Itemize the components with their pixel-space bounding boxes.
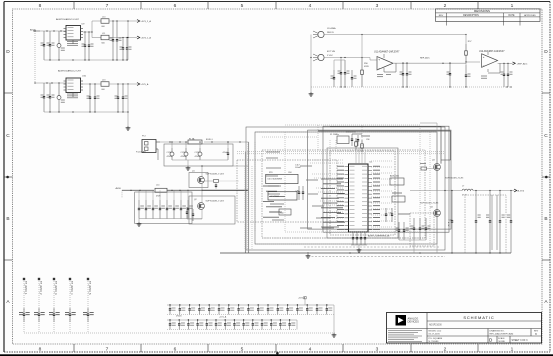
ground entry — [186, 166, 191, 170]
wire stub c74 — [340, 58, 342, 61]
outline box E — [237, 160, 337, 222]
resistor R48 gate — [205, 180, 239, 189]
resistor R57 — [465, 41, 473, 62]
svg-text:7: 7 — [106, 347, 109, 353]
svg-text:REV_A AD2S99/PCB(B): REV_A AD2S99/PCB(B) — [490, 333, 514, 336]
ldo labels rows — [263, 186, 285, 217]
wires to IC left — [308, 160, 344, 218]
svg-text:4: 4 — [309, 3, 312, 9]
ground under IC — [357, 248, 362, 252]
capacitor C79 — [465, 62, 471, 87]
transistor Q1 box — [189, 173, 208, 188]
capacitor C76 — [400, 62, 405, 87]
wire J10 out — [324, 34, 467, 35]
IC U1 ref — [370, 161, 374, 163]
svg-text:REVISIONS: REVISIONS — [474, 9, 490, 13]
capacitor CT1 — [167, 141, 175, 160]
svg-text:C: C — [544, 133, 548, 139]
bus thick vertical 1 — [245, 152, 247, 253]
net label AVDD input — [30, 28, 40, 31]
transistor Q1 part label — [206, 174, 225, 176]
svg-text:TP_AVDD_1: TP_AVDD_1 — [24, 281, 27, 295]
svg-text:C122: C122 — [195, 152, 200, 154]
fuse F1 — [188, 138, 202, 144]
capacitor bank avdd — [138, 190, 193, 218]
outline box C — [262, 150, 425, 238]
capacitor C44 — [507, 191, 512, 254]
ferrite bead L10 — [101, 17, 109, 29]
svg-text:05-17-2005: 05-17-2005 — [429, 334, 441, 336]
capacitor C74 — [331, 60, 343, 87]
right gray rails — [492, 195, 497, 250]
wires from IC right — [371, 161, 392, 227]
svg-text:REV: REV — [534, 330, 539, 332]
regulator U6 LT3045 — [266, 172, 298, 184]
outline box F2 — [330, 151, 395, 235]
wire avdd in — [122, 190, 154, 191]
capacitor C66 — [126, 38, 132, 61]
svg-text:ADM7150ARDZ-3.3-R7: ADM7150ARDZ-3.3-R7 — [56, 18, 80, 21]
svg-text:+1V1_A: +1V1_A — [219, 315, 227, 318]
svg-text:4.7uF: 4.7uF — [447, 222, 449, 228]
wires centre verticals — [248, 125, 430, 250]
net label row1 — [298, 296, 306, 305]
svg-text:DVDD: DVDD — [176, 315, 182, 317]
wire avdd drop — [121, 190, 123, 198]
svg-text:8: 8 — [39, 3, 42, 9]
wire U12 out — [498, 63, 513, 64]
svg-text:5 VDC: 5 VDC — [327, 55, 333, 57]
outline box B — [255, 132, 437, 244]
bus wires centre — [245, 166, 252, 250]
svg-text:2: 2 — [444, 3, 447, 9]
wire q2 drain — [201, 190, 203, 202]
svg-text:SUP70101EL-T1-E3: SUP70101EL-T1-E3 — [420, 202, 439, 204]
svg-text:600: 600 — [102, 89, 105, 91]
net label row2 left — [176, 315, 182, 317]
rail dotted pair 1 — [237, 150, 445, 152]
port +3V3_2_A — [137, 20, 151, 23]
IC U1 label — [368, 234, 390, 237]
connector P1 — [142, 140, 160, 161]
wire input rail reg1 — [40, 30, 66, 31]
capacitor CT4 — [223, 141, 230, 160]
svg-text:U7 LT3045: U7 LT3045 — [270, 196, 279, 198]
capacitor C42 — [486, 191, 491, 254]
op-amp U11 label — [374, 50, 400, 53]
zone centre mark — [6, 176, 547, 355]
wire q2 source — [187, 209, 202, 219]
rail dark top 1 — [330, 127, 441, 164]
capacitor C63 — [110, 21, 115, 60]
capacitor C77 — [406, 62, 412, 87]
svg-text:470R: 470R — [156, 196, 161, 198]
wire r57 to u12 — [465, 61, 480, 62]
capacitor C70 reg2 out — [87, 84, 92, 112]
transistor Q3 part label — [445, 177, 464, 179]
svg-text:6: 6 — [174, 347, 177, 353]
rail dark left — [202, 189, 249, 191]
dense label rows left of IC — [321, 179, 345, 227]
svg-text:3: 3 — [376, 3, 379, 9]
capacitor CT3 — [195, 141, 203, 160]
svg-text:3: 3 — [376, 347, 379, 353]
regulator U9 label — [56, 18, 80, 21]
rail dark bottom — [220, 252, 511, 254]
bus thick vertical 2 — [248, 142, 250, 253]
svg-text:−: − — [483, 63, 485, 67]
capacitor C64 — [116, 21, 122, 60]
wire reg1 gnd rail — [44, 59, 128, 60]
svg-text:C84: C84 — [288, 172, 291, 174]
svg-text:8: 8 — [39, 347, 42, 353]
svg-text:APPROVED: APPROVED — [524, 14, 536, 17]
capacitors under IC — [352, 232, 366, 245]
connector P1 label — [136, 135, 146, 153]
svg-text:1: 1 — [511, 3, 514, 9]
capacitor C49 — [411, 218, 416, 240]
svg-text:4700uF: 4700uF — [181, 156, 188, 158]
op-amp U11 — [377, 54, 393, 77]
svg-text:ADSP-21489BSWZ-4B: ADSP-21489BSWZ-4B — [368, 234, 390, 237]
capacitor Q2 c1 — [186, 207, 188, 219]
svg-text:5: 5 — [241, 347, 244, 353]
ground opamp rail — [0, 0, 1, 1]
wire input rail reg2 — [34, 82, 66, 83]
svg-text:TP_AVDD_4: TP_AVDD_4 — [70, 281, 73, 295]
ground bottom rows — [332, 333, 337, 337]
svg-text:4700uF: 4700uF — [195, 156, 202, 158]
wire reg1 out — [83, 31, 92, 32]
resistor R56 — [361, 58, 370, 88]
capacitor C48 — [403, 222, 409, 240]
svg-text:A_5V0: A_5V0 — [518, 190, 525, 193]
svg-text:X1 25MHz: X1 25MHz — [330, 134, 339, 136]
resistor cluster above U1 — [350, 131, 368, 152]
svg-text:C120: C120 — [167, 152, 172, 154]
crystal X1 — [330, 134, 349, 144]
svg-text:ADM7150ARDZ-2.5-R7: ADM7150ARDZ-2.5-R7 — [58, 70, 82, 73]
svg-text:TP_AVDD_3: TP_AVDD_3 — [54, 281, 57, 295]
capacitor C85 — [296, 186, 301, 200]
svg-text:600: 600 — [102, 26, 105, 28]
svg-text:J10-SMA: J10-SMA — [327, 27, 336, 30]
svg-text:4700uF: 4700uF — [167, 156, 174, 158]
regulator U10 label — [58, 70, 82, 73]
capacitor row 1 — [167, 304, 334, 314]
wire U12 fb — [488, 63, 500, 73]
dashed wire net r2 — [304, 246, 440, 248]
svg-text:U12 ADA4807-1ARJZ-R7: U12 ADA4807-1ARJZ-R7 — [479, 50, 505, 53]
port +REF_5V — [513, 62, 528, 65]
net label REF_ADC — [420, 57, 430, 60]
wire reg1 right rail — [127, 20, 128, 60]
wire opamp gnd rail — [311, 86, 512, 87]
regulator U9 — [64, 24, 86, 46]
connector J10 SMA — [313, 27, 336, 38]
svg-text:U6 LT3045EMSE: U6 LT3045EMSE — [268, 178, 283, 180]
svg-text:TP_AVDD_2: TP_AVDD_2 — [39, 281, 42, 295]
net label PWR — [116, 187, 122, 190]
svg-text:PCI: PCI — [142, 135, 146, 137]
svg-text:SUP70101EL-T1-E3: SUP70101EL-T1-E3 — [206, 200, 225, 202]
zone row labels — [4, 49, 550, 305]
capacitor C86 — [302, 186, 304, 200]
port +2V5_A — [137, 83, 149, 86]
wire avdd rail2 — [167, 190, 249, 191]
right dashed box — [465, 195, 506, 253]
transistor Q3 — [432, 160, 440, 171]
svg-text:SHEET 3 OF 3: SHEET 3 OF 3 — [512, 339, 529, 342]
wire reg2 out — [83, 83, 101, 84]
regulator U10 — [64, 76, 87, 98]
capacitor C67 reg2 in — [41, 83, 46, 112]
svg-text:C: C — [6, 133, 10, 139]
wire bead1 to port — [109, 20, 137, 21]
svg-text:+: + — [483, 55, 485, 59]
wire output rail — [410, 190, 462, 191]
rail dark top 2 — [318, 131, 451, 160]
capacitor C40 — [447, 191, 453, 254]
wire tp gnd rail — [24, 332, 335, 334]
svg-text:SUP70101EL-T1-E3: SUP70101EL-T1-E3 — [445, 177, 464, 179]
svg-text:DATE: DATE — [509, 14, 515, 17]
transistor Q2 box — [189, 196, 235, 224]
svg-text:P.S. SQUARE: P.S. SQUARE — [429, 337, 443, 340]
svg-text:C121: C121 — [181, 152, 186, 154]
svg-text:REV: REV — [439, 15, 444, 17]
svg-text:7: 7 — [106, 3, 109, 9]
svg-text:−: − — [378, 66, 380, 70]
svg-text:EXT VIN: EXT VIN — [327, 51, 336, 53]
wire reg2 down — [127, 84, 128, 126]
capacitor C68 reg2 in — [47, 83, 55, 112]
svg-text:D: D — [544, 49, 548, 55]
transistor Q1 — [192, 171, 204, 184]
outline box D — [323, 126, 449, 232]
capacitor C59 reg1 in — [47, 31, 55, 60]
svg-text:D: D — [6, 49, 10, 55]
power entry cap box — [164, 144, 233, 166]
svg-text:SCHEMATIC: SCHEMATIC — [463, 315, 494, 320]
svg-text:B3JU-1: B3JU-1 — [206, 139, 214, 141]
capacitor row 2 — [167, 319, 297, 329]
svg-text:B: B — [6, 216, 9, 222]
wire q1 source — [201, 183, 202, 191]
svg-text:REF_ADC: REF_ADC — [420, 57, 430, 60]
svg-text:SCALE: SCALE — [498, 337, 505, 340]
svg-text:+2V5_A: +2V5_A — [141, 83, 149, 86]
ferrite bead L14 — [155, 185, 167, 198]
capacitor C81 — [507, 63, 513, 87]
wire U11 fb — [384, 63, 396, 72]
net label C11 100nF — [295, 164, 301, 169]
capacitor C75 — [334, 60, 357, 87]
svg-text:RT6: RT6 — [269, 172, 273, 174]
capacitor C80 — [501, 63, 506, 87]
cluster right of IC — [385, 175, 410, 222]
net SRJU label — [206, 139, 214, 141]
resistor block R50 — [279, 209, 291, 215]
port A_5V — [514, 189, 525, 193]
wire J11 out — [324, 57, 377, 60]
IC U1 main — [337, 164, 380, 232]
svg-text:DRAWING NO.: DRAWING NO. — [490, 329, 505, 332]
ground bottom rail — [306, 252, 311, 258]
wire p1 to fuse — [160, 141, 188, 142]
transistor Q4 — [430, 207, 440, 217]
svg-text:DEVICES: DEVICES — [408, 320, 420, 324]
op-amp U12 label — [479, 50, 505, 53]
svg-text:+3V3_1_A: +3V3_1_A — [141, 37, 152, 40]
wire under ic gnd — [351, 245, 367, 248]
port +3V3_1_A — [137, 36, 151, 39]
wire q1 drain — [201, 165, 248, 176]
ground cap bank — [137, 222, 142, 226]
svg-text:ADM7160: ADM7160 — [390, 175, 400, 178]
capacitor C78 — [447, 62, 452, 87]
ferrite bead L13 — [101, 80, 109, 92]
svg-text:C96: C96 — [366, 139, 369, 141]
svg-text:SUP70101EL-T1-E3: SUP70101EL-T1-E3 — [206, 174, 225, 176]
outline box D2 — [308, 130, 451, 229]
wire reg2 gnd rail — [44, 111, 128, 112]
svg-text:B: B — [544, 216, 547, 222]
capacitor C65 — [120, 38, 125, 61]
ground connectors — [309, 92, 314, 96]
svg-text:2: 2 — [444, 347, 447, 353]
resistor R44 q3 gate — [420, 164, 434, 171]
svg-text:DESCRIPTION: DESCRIPTION — [463, 15, 479, 17]
capacitor C50 — [419, 218, 425, 240]
capacitor C51 — [425, 218, 431, 240]
svg-text:+REF_ADC: +REF_ADC — [517, 62, 528, 65]
wire bead2 to port — [109, 37, 137, 38]
svg-text:REF IN: REF IN — [327, 32, 334, 34]
label blobs centre left — [266, 152, 334, 228]
capacitor C41 — [475, 191, 481, 254]
wire j10 drop — [361, 35, 363, 58]
capacitor C62 reg1 out — [88, 32, 94, 60]
test point columns — [19, 278, 94, 333]
wire bead3 to port — [109, 83, 137, 84]
transistor Q4 part label — [420, 202, 439, 204]
outline box A — [246, 127, 445, 250]
capacitor C69 polarized reg2 — [57, 83, 65, 112]
svg-text:ADSP21000: ADSP21000 — [429, 323, 442, 326]
wire conn shield rail — [310, 35, 311, 93]
svg-text:N. TEXAS: N. TEXAS — [429, 340, 439, 343]
wire input drop to reg2 — [34, 30, 35, 83]
connector J11 SMA — [313, 51, 336, 61]
svg-text:+3V3_2_A: +3V3_2_A — [141, 20, 152, 23]
svg-text:470uF: 470uF — [223, 152, 229, 154]
components above IC — [346, 132, 370, 146]
wires centre horizontals — [255, 125, 437, 244]
wire U11 out — [393, 62, 466, 64]
regulator U7 LT3045 — [268, 192, 297, 200]
svg-text:4: 4 — [309, 347, 312, 353]
svg-text:100nF: 100nF — [295, 167, 301, 169]
svg-text:AVDD: AVDD — [116, 187, 122, 190]
capacitor C73 — [122, 84, 128, 112]
svg-text:1: 1 — [511, 347, 514, 353]
wire q3 top — [420, 123, 437, 164]
wire R57 rail — [465, 35, 467, 45]
transistor Q2 — [194, 199, 204, 210]
wire q3 to rail — [436, 170, 438, 190]
svg-text:5: 5 — [241, 3, 244, 9]
capacitor C72 — [115, 84, 120, 112]
svg-text:47uH: 47uH — [462, 194, 467, 196]
sheet bottom black bar — [0, 354, 553, 356]
IC U1 top stubs — [356, 148, 365, 164]
svg-text:F1 3A: F1 3A — [189, 138, 195, 141]
dashed line below rail — [308, 256, 445, 258]
inductor L7 — [462, 186, 473, 197]
title block — [387, 313, 542, 344]
capacitor C61 reg1 out — [82, 32, 87, 60]
svg-text:U11 ADA4807-1ARJZ-R7: U11 ADA4807-1ARJZ-R7 — [374, 50, 400, 53]
capacitor C71 reg2 out — [94, 84, 100, 112]
wire cap bank gnd — [139, 219, 202, 222]
wire to beads — [91, 21, 101, 38]
svg-text:TP_AVDD_5: TP_AVDD_5 — [88, 281, 91, 295]
rail dotted pair 2 — [237, 153, 445, 155]
svg-text:600: 600 — [102, 43, 105, 45]
ground regulators — [126, 126, 131, 130]
capacitor CT2 — [181, 141, 189, 160]
op-amp U12 — [481, 52, 498, 78]
ferrite bead L11 — [101, 33, 109, 44]
wire l7 to port — [473, 190, 514, 191]
svg-text:+: + — [378, 58, 380, 62]
net label row2 — [219, 315, 227, 318]
cap bank box left — [135, 192, 192, 224]
svg-text:R50: R50 — [280, 212, 283, 214]
capacitor Q2 c2 — [192, 209, 194, 221]
dashed box caps q4 — [410, 213, 434, 246]
revisions table — [436, 9, 541, 26]
wire bottom rail centre — [349, 252, 500, 253]
capacitor C60 polarized reg1 — [57, 31, 65, 60]
svg-text:MODEL CU2: MODEL CU2 — [429, 331, 442, 333]
wire caps q4 gnd — [399, 240, 426, 253]
svg-text:NONE: NONE — [499, 341, 506, 343]
wire rows to gnd — [297, 305, 334, 333]
capacitor C47 — [396, 222, 401, 240]
wire q4 down — [436, 216, 438, 253]
transistor Q2 part label — [206, 200, 225, 202]
outline box F — [327, 148, 398, 238]
wire entry gnd — [172, 160, 228, 166]
wire entry rail — [204, 141, 249, 142]
capacitor C43 — [499, 191, 505, 254]
svg-text:6: 6 — [174, 3, 177, 9]
capacitor C58 reg1 in — [41, 31, 46, 60]
